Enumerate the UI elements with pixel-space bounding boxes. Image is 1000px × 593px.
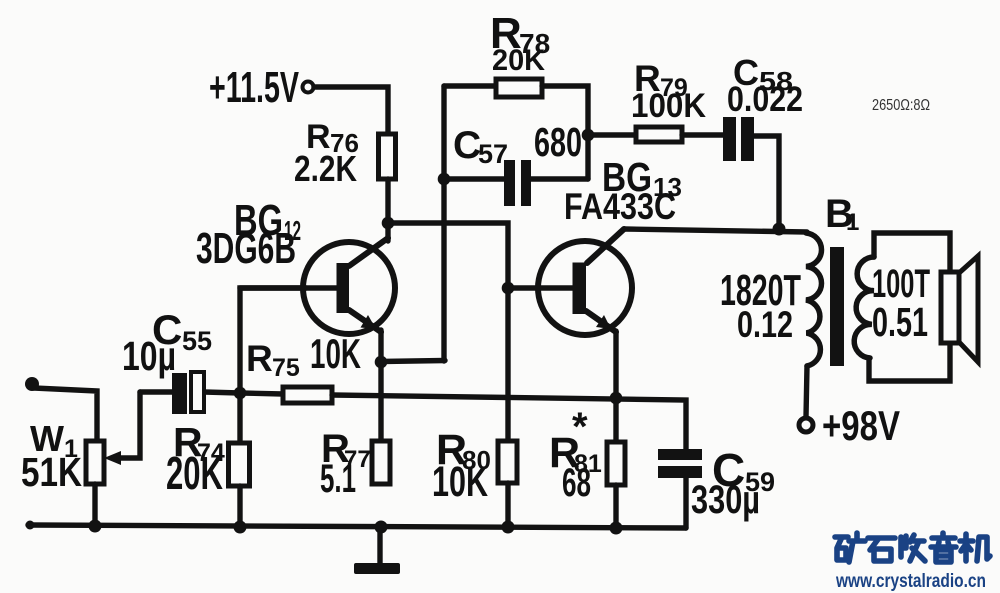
wire R81 to ground rail [613, 485, 618, 528]
wire BG13 base node down to R80 [505, 288, 510, 441]
wire C55 left lead [140, 389, 172, 394]
transistor Q1 BG12 body [303, 242, 395, 334]
resistor R78 [496, 79, 542, 97]
wire BG13 collector to transformer [624, 229, 807, 232]
watermark char shi [868, 538, 895, 561]
wire wiper to C55 [114, 392, 140, 458]
wire emitter to feedback vertical [381, 361, 445, 362]
node C57 left junction [438, 173, 451, 186]
wire mid feedback rail left [240, 393, 283, 394]
transistor Q2 BG13 base bar [573, 263, 587, 315]
svg-text:2.2K: 2.2K [294, 148, 357, 189]
node R79 junction [582, 129, 595, 142]
wire secondary loop to speaker [869, 233, 950, 381]
wire mid feedback rail right [332, 395, 686, 450]
svg-text:2650Ω:8Ω: 2650Ω:8Ω [872, 97, 930, 114]
svg-text:+11.5V: +11.5V [209, 63, 299, 112]
speaker horn [959, 256, 978, 362]
svg-text:10K: 10K [432, 458, 488, 506]
node rail left end [26, 521, 35, 530]
svg-text:330µ: 330µ [691, 478, 760, 522]
svg-text:www.crystalradio.cn: www.crystalradio.cn [835, 571, 986, 592]
svg-text:5.1: 5.1 [320, 457, 356, 501]
node emitter rail junction [610, 392, 623, 405]
node W1 ground junction [89, 520, 102, 533]
transformer B1 primary winding [806, 233, 822, 366]
transistor Q2 BG13 body [538, 241, 632, 335]
wire C59 to ground rail [683, 478, 688, 528]
svg-text:68: 68 [562, 461, 591, 505]
wire BG12 base lead [240, 285, 337, 290]
watermark char kuang [835, 533, 865, 562]
svg-text:55: 55 [182, 326, 212, 356]
svg-text:1: 1 [846, 209, 859, 236]
wire W1 to ground rail [92, 484, 97, 527]
capacitor C55 minus plate [191, 372, 204, 412]
svg-text:R: R [246, 338, 273, 379]
svg-text:20K: 20K [166, 447, 223, 499]
transistor Q1 BG12 base bar [337, 263, 350, 313]
svg-text:57: 57 [478, 139, 508, 169]
capacitor C59 [658, 449, 702, 460]
wire BG13 base lead [508, 285, 573, 290]
node R80 ground junction [502, 521, 515, 534]
svg-text:75: 75 [272, 354, 300, 382]
wire R79 left lead [588, 132, 636, 137]
wire ground rail [28, 525, 686, 528]
transformer B1 secondary winding [854, 257, 874, 358]
resistor R74 [229, 443, 250, 486]
node +98V terminal [799, 418, 813, 432]
wire primary to +98V [806, 366, 807, 417]
svg-text:680: 680 [534, 119, 582, 165]
capacitor C58 [723, 117, 736, 161]
node +11.5V terminal [303, 82, 314, 93]
wire C57 left lead [444, 176, 504, 181]
watermark crystalradio [835, 533, 990, 562]
transistor Q1 BG12 emitter lead [349, 310, 381, 332]
svg-text:C: C [453, 124, 481, 167]
resistor R76 [379, 134, 396, 179]
svg-text:10K: 10K [310, 330, 361, 377]
wire base node vertical W1/C55/R74 [240, 288, 306, 443]
potentiometer W1 wiper arrow [104, 451, 121, 465]
node BG12 emitter junction [375, 356, 388, 369]
svg-text:+98V: +98V [822, 402, 900, 449]
svg-text:51K: 51K [21, 449, 82, 495]
wire C57 right lead [531, 176, 588, 181]
wire coupling BG12 collector to BG13 base [388, 223, 508, 288]
svg-text:0.12: 0.12 [737, 304, 793, 345]
svg-text:20K: 20K [492, 44, 545, 77]
wire +11.5V rail to R76 [314, 87, 388, 135]
watermark char yin [931, 533, 956, 562]
wire R78 right [542, 86, 588, 179]
transformer B1 core [830, 247, 844, 366]
transistor Q2 BG13 collector lead [587, 229, 624, 263]
wire R74 to ground rail [237, 486, 242, 527]
node R74 ground junction [234, 521, 247, 534]
wire R77 to ground symbol [377, 527, 382, 564]
resistor R79 [636, 127, 682, 142]
svg-text:*: * [572, 405, 588, 449]
transistor Q2 BG13 emitter arrow [596, 315, 611, 329]
node R77 ground junction [375, 521, 388, 534]
node R75 left junction [234, 387, 247, 400]
potentiometer W1 [86, 441, 104, 484]
capacitor C57 [504, 160, 515, 206]
watermark char ji [960, 534, 990, 561]
capacitor C55 plus plate [172, 373, 187, 414]
transistor Q2 BG13 emitter lead [586, 311, 616, 332]
resistor R81 [607, 442, 625, 485]
node R81 ground junction [610, 522, 623, 535]
svg-text:3DG6B: 3DG6B [196, 224, 296, 273]
wire C55 right lead [204, 392, 240, 393]
node input terminal [25, 377, 39, 391]
transistor Q1 BG12 collector lead [349, 238, 388, 266]
resistor R77 [372, 441, 390, 484]
wire C58 right down to collector line [754, 136, 779, 229]
wire R76 to collector node [385, 179, 390, 241]
node BG13 base junction [502, 282, 515, 295]
wire R80 to ground rail [505, 483, 510, 527]
wire top to R78 [444, 83, 496, 88]
resistor R80 [498, 441, 517, 483]
node C58/collector junction [773, 223, 786, 236]
watermark char shou [901, 535, 925, 561]
speaker body [941, 272, 959, 343]
wire BG13 emitter down [613, 331, 618, 442]
node collector BG12 junction [382, 217, 395, 230]
svg-text:FA433C: FA433C [564, 186, 676, 227]
resistor R75 [283, 387, 332, 403]
wire BG12 emitter down [378, 330, 383, 441]
ground [354, 563, 400, 574]
svg-text:10µ: 10µ [122, 333, 176, 379]
svg-text:0.022: 0.022 [727, 80, 803, 119]
wire feedback vertical C57/R78 left [441, 86, 446, 361]
wire R79 to C58 [682, 132, 723, 137]
svg-text:0.51: 0.51 [872, 299, 928, 345]
transistor Q1 BG12 emitter arrow [361, 315, 377, 329]
wire input to W1 [34, 388, 97, 441]
svg-text:100K: 100K [631, 87, 706, 125]
